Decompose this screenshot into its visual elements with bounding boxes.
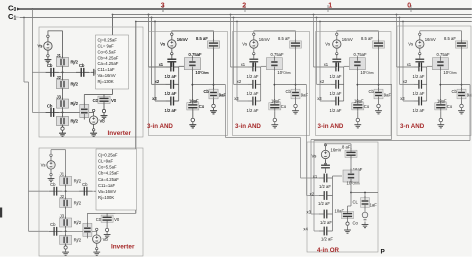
source Vs bias OR	[312, 144, 352, 166]
wire output node row	[84, 94, 112, 96]
capacitor input x4 OR	[303, 226, 333, 241]
svg-text:1/2 aF: 1/2 aF	[319, 184, 331, 189]
wire riser C1' to bus	[116, 22, 136, 214]
wire bus C0-inverted	[113, 14, 473, 16]
ground under Vs	[45, 57, 52, 63]
box gate G0	[397, 26, 471, 136]
page margins	[0, 257, 474, 260]
svg-text:Cj=0.25aF: Cj=0.25aF	[98, 152, 118, 157]
svg-text:16mV: 16mV	[331, 148, 342, 153]
ground under load	[362, 222, 369, 228]
box gate G3	[149, 32, 228, 136]
inverter U1 (C0)	[38, 15, 144, 138]
svg-text:Cb=4.25aF: Cb=4.25aF	[98, 171, 119, 176]
svg-text:3-in AND: 3-in AND	[318, 123, 344, 130]
capacitor Co output OR	[335, 193, 359, 226]
parameter note box 1	[96, 35, 129, 89]
wire output G2 to OR input x2	[307, 85, 320, 196]
svg-text:Rj=130K: Rj=130K	[98, 79, 114, 84]
svg-text:Inverter: Inverter	[111, 244, 135, 251]
wire output G0	[440, 84, 470, 86]
svg-text:Rj=100K: Rj=100K	[98, 195, 114, 200]
capacitor Cb input2	[46, 103, 59, 117]
svg-text:Cj=0.25aF: Cj=0.25aF	[98, 38, 118, 43]
svg-text:0: 0	[407, 3, 411, 10]
ground under Co OR	[344, 221, 351, 234]
svg-text:4-in OR: 4-in OR	[317, 247, 340, 254]
svg-text:in: in	[16, 15, 19, 19]
wire row 2	[46, 111, 94, 113]
svg-text:Inverter: Inverter	[108, 130, 132, 137]
wire to junction J1	[62, 31, 64, 58]
wire riser input x2	[151, 17, 166, 85]
capacitor Cb 9aF	[204, 88, 227, 101]
svg-text:3: 3	[161, 3, 165, 10]
svg-text:Va=16mV: Va=16mV	[98, 189, 116, 194]
svg-text:x3: x3	[307, 209, 312, 214]
OR gate G4	[303, 142, 378, 254]
junction J3	[57, 95, 79, 110]
node Cb tap	[213, 84, 215, 86]
AND gate G1	[313, 5, 392, 136]
ground under Vb	[90, 130, 97, 136]
wire output G2	[274, 84, 306, 86]
capacitor Cb right	[76, 63, 89, 77]
wire output G3	[192, 84, 225, 86]
capacitor under Vs	[167, 54, 176, 67]
ground under Cb	[210, 101, 217, 114]
AND gate G3	[148, 5, 228, 136]
svg-text:C11=1aF: C11=1aF	[98, 67, 115, 72]
wire riser input x1	[148, 14, 166, 67]
svg-text:P: P	[381, 249, 386, 256]
3-input AND core (used for gates G3..G0)	[148, 5, 227, 128]
wire output column	[192, 71, 194, 102]
wire riser C0' to bus	[112, 15, 114, 95]
ground right of row1	[91, 69, 97, 76]
capacitor CL load	[353, 192, 378, 209]
wire island column	[179, 66, 185, 101]
svg-text:x4: x4	[303, 226, 308, 231]
svg-text:1/2 aF: 1/2 aF	[318, 201, 330, 206]
wire row 1	[46, 71, 91, 73]
node dots at bus taps	[112, 14, 114, 16]
source Vs	[38, 31, 63, 57]
svg-text:3-in AND: 3-in AND	[235, 123, 261, 130]
box inverter U1	[39, 27, 143, 137]
AND gate G0	[396, 5, 474, 136]
svg-text:Va=16mV: Va=16mV	[98, 73, 116, 78]
capacitor input x1 OR	[313, 174, 332, 189]
wire output G0 to OR input x4	[314, 85, 470, 231]
wire bus C0	[17, 8, 472, 11]
capacitor input x1	[159, 62, 179, 79]
capacitor Co output 10aF	[187, 98, 205, 111]
svg-text:Co=6.5aF: Co=6.5aF	[98, 49, 117, 54]
svg-text:107Ohm: 107Ohm	[347, 181, 360, 186]
svg-text:1/2 aF: 1/2 aF	[321, 237, 333, 242]
junction 0.75aF	[184, 52, 208, 75]
source small load	[362, 209, 368, 220]
wire C0 drop to inverter1	[32, 9, 45, 112]
svg-text:Cb=4.25aF: Cb=4.25aF	[98, 55, 119, 60]
AND gate G2	[230, 5, 310, 136]
wire bus C1	[16, 15, 472, 19]
wire C1 drop to inverter2	[24, 18, 49, 232]
capacitor C0 output	[93, 94, 117, 105]
box gate G2	[233, 32, 310, 136]
wire tap from bus	[162, 5, 164, 12]
edge artifact	[0, 208, 2, 218]
svg-text:CL= 9aF: CL= 9aF	[98, 44, 115, 49]
wire riser input x3	[154, 21, 166, 101]
svg-text:x2: x2	[310, 191, 315, 196]
svg-text:Ca=4.25aF: Ca=4.25aF	[98, 177, 119, 182]
wire island column OR	[332, 176, 342, 231]
svg-text:x1: x1	[313, 174, 318, 179]
node island1	[62, 71, 64, 73]
junction OR 10^7 Ohm	[343, 167, 363, 193]
capacitor input x3	[152, 96, 179, 113]
svg-text:C11=1aF: C11=1aF	[98, 183, 115, 188]
wire output G1	[357, 84, 392, 86]
wire output node OR	[350, 192, 378, 194]
source Vs bias	[160, 31, 213, 55]
svg-text:8 aF: 8 aF	[342, 145, 351, 150]
capacitor input x3 OR	[307, 209, 333, 224]
capacitor input x2	[155, 79, 179, 96]
capacitor input x2 OR	[310, 191, 332, 206]
svg-text:2: 2	[242, 3, 246, 10]
svg-text:CL=9aF: CL=9aF	[98, 159, 113, 164]
capacitor 8.5aF	[196, 31, 220, 90]
box gate G1	[316, 32, 392, 136]
capacitor Cb input	[46, 63, 59, 77]
svg-text:Vs: Vs	[312, 154, 317, 159]
inverter U2 (C1)	[41, 150, 120, 256]
capacitor 8 aF	[342, 144, 357, 172]
junction J2	[57, 75, 79, 90]
ground under Co	[189, 112, 196, 128]
svg-text:Ca=4.25aF: Ca=4.25aF	[98, 61, 119, 66]
svg-text:1: 1	[328, 3, 332, 10]
box inverter U2	[39, 148, 143, 256]
source Vb	[89, 109, 105, 131]
wire output G3 to OR input x1	[226, 85, 320, 178]
svg-text:1aF: 1aF	[370, 203, 378, 208]
junction vertical output	[80, 95, 89, 120]
svg-text:CL: CL	[353, 199, 359, 204]
parameter note box 2	[96, 149, 137, 210]
box gate 4-in OR	[307, 142, 378, 252]
svg-text:3-in AND: 3-in AND	[147, 123, 173, 130]
junction J1	[57, 53, 79, 68]
wire bus C1-inverted	[136, 21, 472, 23]
ground under C0	[101, 105, 108, 118]
junction J4	[57, 115, 79, 127]
capacitor under Vs OR	[321, 160, 330, 173]
node island2	[62, 112, 64, 114]
svg-text:3-n AND: 3-n AND	[400, 123, 425, 130]
svg-text:Co=5.5aF: Co=5.5aF	[98, 165, 117, 170]
ground under J4	[59, 125, 66, 136]
inverter core (used for U1 and U2)	[38, 31, 117, 137]
wire between stages	[62, 66, 64, 80]
svg-text:1/2 aF: 1/2 aF	[320, 220, 332, 225]
wire output G1 to OR input x3	[311, 85, 392, 214]
svg-text:Co: Co	[353, 220, 359, 225]
